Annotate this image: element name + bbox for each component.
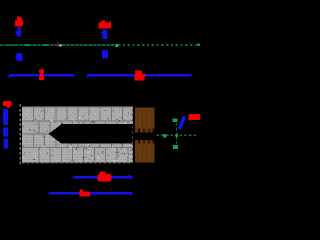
section marker glyph (dark) (58, 42, 60, 47)
wood batten blocks (brown) (135, 108, 155, 163)
cross tick left (163, 134, 167, 138)
cross tick bottom (173, 145, 178, 149)
leader label (red) (189, 114, 200, 120)
dimension 3 red X mark (79, 189, 90, 196)
centerline cross horizontal (green dashed) (157, 134, 198, 136)
dimension line 2 (blue, above bottom) (72, 175, 133, 179)
dimension line 1 left segment (blue) (7, 74, 74, 78)
centerline cross vertical (green dashed) (175, 119, 177, 152)
centerline bright dashes (25, 44, 200, 46)
dimension line 1 right segment (blue) (86, 74, 191, 78)
marker B red glyph (99, 20, 111, 28)
marker A blue value (below centerline) (16, 53, 23, 61)
wall left blue vertical label (3, 109, 8, 149)
centerline (green dashed, horizontal) (15, 44, 197, 46)
dimension line 1 red X mark (134, 71, 145, 81)
dimension 2 red value (98, 171, 112, 181)
marker B blue glyph (upper) (101, 29, 108, 39)
cross tick top (173, 119, 178, 123)
wall dashed bottom border (22, 162, 133, 164)
cross center (175, 134, 178, 137)
dimension line 1 red tick (39, 70, 44, 81)
centerline faint base (0, 44, 118, 46)
wall dashed left border (19, 104, 21, 165)
wall left red glyph (3, 101, 12, 108)
centerline label left (green) (0, 44, 15, 46)
node dot on centerline (cyan-green) (115, 44, 118, 47)
wall hatched section (gray) (22, 107, 133, 163)
section marker on centerline: red dot (56, 44, 58, 46)
marker A red glyph (15, 17, 23, 27)
marker B blue value (below centerline) (102, 50, 108, 58)
leader line (blue diagonal) (179, 116, 184, 129)
dimension line 3 (blue, bottom) (48, 192, 132, 195)
section marker white dot (60, 44, 62, 46)
arrow-shaped hole in wall (black) (49, 124, 133, 144)
marker A blue glyph (upper) (16, 27, 22, 37)
